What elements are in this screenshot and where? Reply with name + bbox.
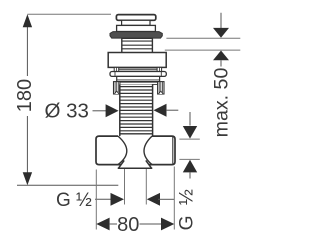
dim max50 upper vertical line: [220, 13, 222, 28]
dim G1/2 right vertical stub bottom: [189, 172, 191, 178]
nut bar with rounded ends: [110, 72, 166, 77]
dim 80 right line: [140, 223, 162, 225]
dim G1/2 right down arrowhead: [183, 126, 197, 139]
threaded tube bottom line: [120, 133, 153, 135]
svg-text:G ½: G ½: [177, 187, 198, 231]
clamp block left: [114, 82, 120, 94]
dim 80 extension line right: [173, 167, 175, 230]
dim Ø33 right leader line: [166, 109, 178, 111]
threaded tube fill: [120, 84, 153, 135]
dim G1/2 right reference line 1: [179, 138, 199, 140]
body sphere arc right: [144, 136, 152, 165]
dim 180 vertical line lower: [26, 116, 28, 174]
valve body slab (top edge open across column): [96, 136, 175, 165]
svg-text:Ø 33: Ø 33: [45, 99, 89, 122]
dim 180 bottom arrowhead: [23, 172, 32, 185]
dim G1/2 bottom right arrowhead: [111, 193, 125, 206]
dim G1/2 bottom leader line: [95, 198, 112, 200]
dim G1/2 right vertical stub top: [189, 112, 191, 126]
collar section with end tabs: [114, 67, 161, 71]
collar right tab: [157, 67, 162, 71]
cap base: [117, 25, 156, 31]
dim Ø33 right arrowhead: [154, 104, 167, 117]
svg-text:G ½: G ½: [56, 190, 92, 211]
dim max50 down arrowhead: [213, 28, 229, 38]
rings stack body: [122, 38, 153, 52]
dim 180 top extension line: [27, 13, 111, 15]
dim G1/2 right up arrowhead: [183, 160, 197, 173]
cap neck: [122, 20, 150, 25]
dim 180 top arrowhead: [23, 14, 32, 27]
dim 80 right arrowhead: [161, 218, 174, 231]
dim G1/2 right reference line 2: [179, 158, 199, 160]
dim Ø33 left leader line: [93, 110, 108, 112]
threaded tube side walls: [119, 84, 121, 136]
pipe extension line left: [124, 169, 126, 205]
bottom outlet flare: [118, 160, 151, 168]
dim pipe left arrowhead (pointing left): [147, 193, 160, 206]
dim pipe right leader line: [158, 198, 174, 200]
body sphere arc left: [118, 136, 127, 165]
dim 180 vertical line upper: [26, 27, 28, 77]
dim 180 bottom reference line: [17, 184, 118, 186]
collar lines: [119, 67, 157, 69]
pipe extension line right: [145, 169, 147, 205]
cap top bar: [116, 15, 155, 21]
clamp block right: [158, 82, 164, 94]
wide box (stop ring housing): [108, 53, 166, 68]
thread stripes: [120, 87, 152, 131]
lines between clamp blocks: [120, 81, 158, 83]
collar left tab: [114, 67, 119, 71]
dim max50 reference line 1: [166, 37, 240, 39]
cylinder end inner line: [172, 137, 174, 164]
dim max50 reference line 2: [165, 49, 241, 51]
dim 80 extension line left: [95, 170, 97, 230]
dim 80 left arrowhead: [96, 218, 109, 231]
spacer band: [117, 76, 160, 81]
svg-text:180: 180: [14, 79, 36, 112]
svg-text:80: 80: [117, 214, 139, 236]
flange (trim plate): [110, 32, 162, 38]
dim Ø33 left arrowhead: [106, 104, 119, 117]
dim max50 lower vertical stub: [220, 60, 222, 66]
dim max50 up arrowhead: [213, 51, 229, 61]
dim 80 left line: [109, 223, 117, 225]
svg-text:max. 50: max. 50: [211, 68, 233, 138]
rings lines: [122, 40, 152, 42]
